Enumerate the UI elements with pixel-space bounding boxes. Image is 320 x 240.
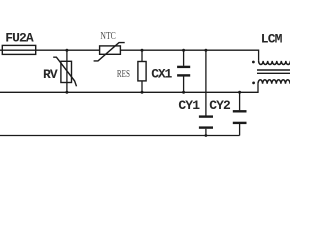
svg-text:CY2: CY2 (209, 98, 231, 113)
svg-text:RV: RV (43, 67, 58, 82)
svg-text:LCM: LCM (261, 31, 283, 46)
svg-text:CY1: CY1 (178, 98, 200, 113)
svg-text:NTC: NTC (100, 30, 115, 41)
svg-text:FU2A: FU2A (5, 31, 34, 46)
svg-text:CX1: CX1 (151, 66, 172, 81)
svg-text:RES: RES (117, 68, 130, 80)
